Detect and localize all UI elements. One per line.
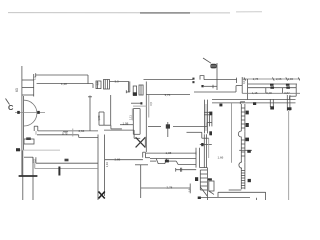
svg-text:63: 63 [15, 88, 19, 92]
svg-text:2,86: 2,86 [115, 158, 121, 162]
svg-text:2,05: 2,05 [276, 77, 282, 81]
svg-text:1,08: 1,08 [166, 151, 172, 155]
svg-text:1,66: 1,66 [218, 156, 224, 160]
svg-text:1,34: 1,34 [105, 162, 109, 168]
svg-text:1,98: 1,98 [123, 121, 129, 125]
svg-text:1,48: 1,48 [61, 82, 67, 86]
svg-text:1,5: 1,5 [95, 81, 99, 85]
svg-text:0,5: 0,5 [33, 159, 37, 163]
svg-text:0,75: 0,75 [62, 131, 68, 135]
svg-text:1,11: 1,11 [129, 115, 133, 120]
svg-text:0,96: 0,96 [79, 129, 85, 133]
svg-text:2,78: 2,78 [253, 77, 259, 81]
svg-text:1,36: 1,36 [288, 77, 294, 81]
svg-text:1,9: 1,9 [188, 188, 192, 192]
svg-text:C: C [8, 103, 14, 112]
svg-text:0,48: 0,48 [266, 91, 272, 95]
svg-text:0,5: 0,5 [149, 101, 153, 105]
svg-text:3,76: 3,76 [165, 93, 171, 97]
svg-text:2,78: 2,78 [167, 186, 173, 190]
svg-text:0,13: 0,13 [242, 78, 246, 84]
svg-text:1,15: 1,15 [252, 91, 258, 95]
svg-text:1,5: 1,5 [32, 76, 36, 80]
svg-text:4,88: 4,88 [97, 115, 101, 121]
svg-text:3,3: 3,3 [115, 80, 120, 84]
svg-text:0,87: 0,87 [284, 91, 290, 95]
